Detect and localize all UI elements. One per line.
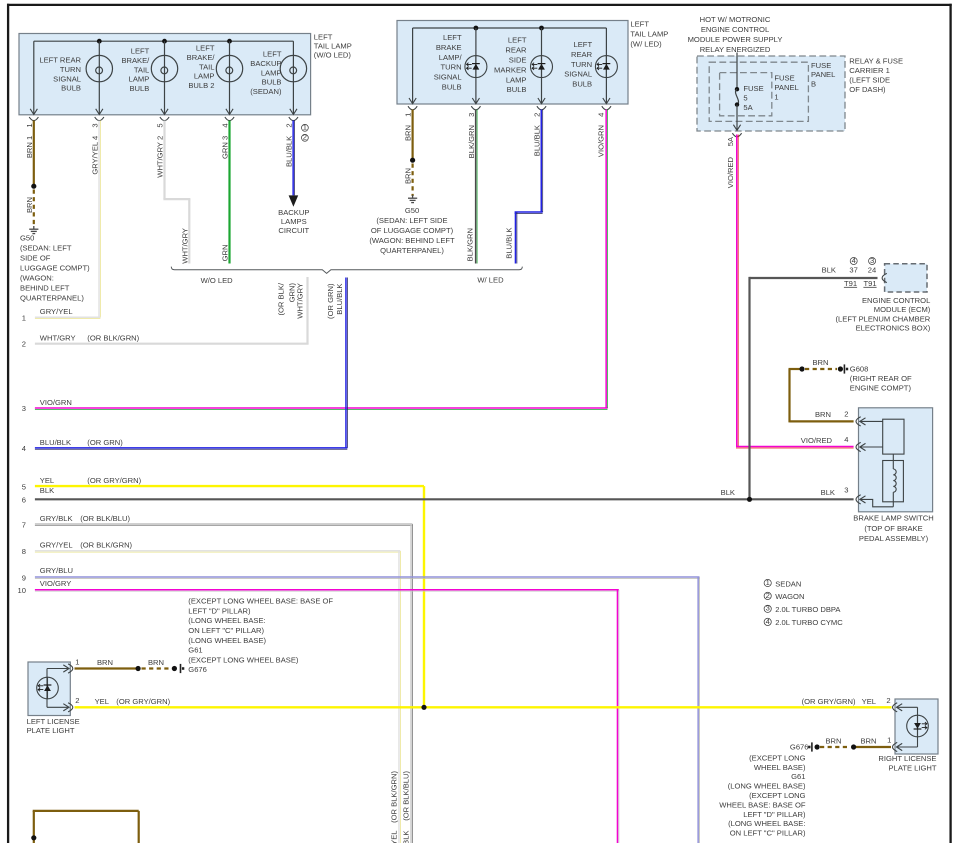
svg-text:BRN: BRN [812,358,828,367]
svg-text:LEFT: LEFT [630,19,649,28]
svg-text:BLU/BLK: BLU/BLK [505,228,514,259]
label GRN mid [221,245,230,262]
svg-text:W/ LED: W/ LED [477,275,504,284]
svg-text:LEFT: LEFT [443,33,462,42]
svg-text:VIO/GRY: VIO/GRY [40,579,72,588]
svg-text:B: B [811,80,816,89]
svg-text:4: 4 [844,435,848,444]
svg-text:WHT/GRY: WHT/GRY [180,228,189,264]
label RELAY & FUSE CARRIER 1 (LEFT SIDE OF DASH) [849,56,903,94]
svg-text:(W/O LED): (W/O LED) [314,50,352,59]
junction dot at G676 right [815,744,820,749]
svg-text:SEDAN: SEDAN [775,579,801,588]
svg-text:FUSE: FUSE [774,73,794,82]
dashed box RELAY AND FUSE CARRIER 1 [697,56,845,131]
svg-text:LUGGAGE COMPT): LUGGAGE COMPT) [20,264,90,273]
wire GRN box1 pin4 to brace [228,121,230,264]
wire BLU/BLK box2 pin2 jog to brace [515,110,543,264]
svg-text:G608: G608 [850,365,869,374]
label BLK line 6 [22,486,735,504]
svg-text:(OR BLK/GRN): (OR BLK/GRN) [389,771,398,823]
brake switch internal resistor coil [860,461,904,507]
svg-text:TURN: TURN [571,60,592,69]
svg-text:BLK: BLK [40,486,54,495]
label GRY/YEL line 1 [22,307,73,322]
svg-text:G676: G676 [188,665,207,674]
svg-text:BULB: BULB [61,84,81,93]
svg-text:LAMP/: LAMP/ [439,53,463,62]
svg-text:WHT/GRY: WHT/GRY [296,283,305,319]
label BRN above G608 wire [812,358,828,367]
svg-text:LEFT REAR: LEFT REAR [39,56,81,65]
labels BRN right license [825,736,876,745]
wire YEL line 5 to license plate lights [35,486,424,707]
wire GRY/BLU line 9 down to page bottom [35,577,700,843]
svg-text:BULB 2: BULB 2 [188,81,214,90]
svg-text:MODULE (ECM): MODULE (ECM) [874,305,931,314]
svg-text:10: 10 [18,586,26,595]
pin connectors box1 [29,117,298,121]
svg-text:QUARTERPANEL): QUARTERPANEL) [20,294,84,303]
junction dot BRN bottom left [31,835,36,840]
svg-text:BLU/BLK: BLU/BLK [533,125,542,156]
svg-text:TAIL: TAIL [134,65,149,74]
pin connectors box2 [408,106,611,110]
svg-text:SIGNAL: SIGNAL [564,70,592,79]
svg-text:ON LEFT "C" PILLAR): ON LEFT "C" PILLAR) [730,829,806,838]
svg-text:BLU/BLK: BLU/BLK [335,284,344,315]
svg-text:(W/ LED): (W/ LED) [630,39,662,48]
internal bus wire box1 [34,41,294,114]
svg-text:BRN: BRN [25,197,34,213]
svg-text:2: 2 [75,696,79,705]
pin labels box1 [25,123,294,177]
label GRY/YEL line 8 [22,541,133,557]
fuse output pin connector [732,133,741,137]
svg-text:2: 2 [766,591,770,600]
svg-text:GRY/BLK: GRY/BLK [40,514,73,523]
svg-text:(OR GRY/GRN): (OR GRY/GRN) [116,697,170,706]
svg-text:(OR BLK/GRN): (OR BLK/GRN) [87,333,139,342]
svg-text:YEL: YEL [40,476,54,485]
ground G676 right [808,742,812,751]
svg-text:PEDAL ASSEMBLY): PEDAL ASSEMBLY) [859,534,929,543]
svg-text:1: 1 [25,123,34,127]
svg-text:VIO/GRN: VIO/GRN [596,125,605,157]
svg-text:(LONG WHEEL BASE): (LONG WHEEL BASE) [188,636,266,645]
svg-text:1: 1 [303,123,307,132]
svg-text:(EXCEPT LONG: (EXCEPT LONG [749,791,805,800]
svg-text:(EXCEPT LONG: (EXCEPT LONG [749,753,805,762]
junction dot BRN right [851,744,856,749]
svg-text:BRN: BRN [815,410,831,419]
svg-text:2: 2 [284,123,293,127]
svg-text:GRY/YEL 4: GRY/YEL 4 [90,136,99,175]
label BLK/GRN mid [466,228,475,261]
ground G608 [844,364,912,392]
svg-text:(SEDAN: LEFT SIDE: (SEDAN: LEFT SIDE [376,216,447,225]
bulb LEFT REAR TURN SIGNAL BULB [39,41,112,114]
svg-text:ENGINE CONTROL: ENGINE CONTROL [862,296,930,305]
svg-text:3: 3 [22,404,26,413]
junction dot BLK line6 [747,497,752,502]
junction dot BRN left [136,666,141,671]
svg-text:(OR BLK/: (OR BLK/ [277,282,286,315]
label VIO/GRN line 3 [22,398,72,413]
svg-text:1: 1 [774,93,778,102]
svg-text:T91: T91 [863,279,876,288]
svg-text:BLK: BLK [822,266,836,275]
svg-text:(LEFT SIDE: (LEFT SIDE [849,76,890,85]
svg-text:BEHIND LEFT: BEHIND LEFT [20,284,70,293]
svg-text:SIDE OF: SIDE OF [20,254,51,263]
labels YEL left license [95,697,171,706]
svg-text:BRAKE: BRAKE [436,43,462,52]
dashed wire BRN to G608 [805,368,837,370]
svg-text:(OR GRN): (OR GRN) [326,283,335,319]
wire GRY/BLK line 7 down to page bottom [35,524,413,843]
labels BLK 3 at brake switch pin3 [821,488,835,497]
svg-text:TAIL LAMP: TAIL LAMP [630,29,668,38]
svg-text:2: 2 [533,113,542,117]
label BRN dashed box2 [404,168,413,184]
wire WHT/GRY box1 pin5 jog to brace [163,121,190,264]
svg-text:5: 5 [156,123,165,127]
wire BRN brake switch pin2 to G608 [789,369,854,422]
svg-text:WHEEL BASE): WHEEL BASE) [754,763,806,772]
svg-text:4: 4 [766,617,770,626]
svg-text:PANEL: PANEL [774,83,798,92]
label VIO/GRY line 10 [18,579,72,595]
junction dot YEL [421,705,426,710]
wire WHT/GRY below brace to line 2 [35,277,309,344]
svg-text:CARRIER 1: CARRIER 1 [849,66,890,75]
svg-text:MODULE POWER SUPPLY: MODULE POWER SUPPLY [688,35,783,44]
svg-text:G676: G676 [790,743,809,752]
labels BRN left license [97,658,164,667]
junction dot BRN G50 left [31,184,36,189]
svg-text:(OR GRY/GRN): (OR GRY/GRN) [802,697,856,706]
svg-text:G61: G61 [791,772,805,781]
svg-text:1: 1 [22,314,26,323]
label BLK at ECM [822,266,836,275]
label 5A [726,136,735,146]
svg-text:BRN: BRN [860,736,876,745]
text G50 sedan/wagon location left [20,233,90,302]
svg-text:LEFT "D" PILLAR): LEFT "D" PILLAR) [188,606,251,615]
svg-text:BULB: BULB [507,85,527,94]
svg-text:YEL: YEL [95,697,109,706]
svg-text:G50: G50 [20,233,34,242]
svg-text:WHEEL BASE: BASE OF: WHEEL BASE: BASE OF [719,800,806,809]
svg-text:BRN: BRN [404,125,413,141]
svg-text:(OR GRY/GRN): (OR GRY/GRN) [87,476,141,485]
dashed BRN to ground G676 left [142,667,173,669]
label LEFT TAIL LAMP (W/ LED) [630,19,668,48]
svg-text:3: 3 [467,113,476,117]
svg-text:3: 3 [844,486,848,495]
component box LEFT LICENSE PLATE LIGHT [27,662,80,735]
label BLU/BLK mid [505,228,514,259]
brake switch pin connectors 2 4 3 [844,410,860,504]
svg-text:(OR BLK/BLU): (OR BLK/BLU) [402,771,411,821]
svg-text:G50: G50 [405,206,419,215]
svg-text:LEFT: LEFT [574,40,593,49]
svg-text:(OR GRN): (OR GRN) [87,438,123,447]
component box RIGHT LICENSE PLATE LIGHT [878,699,938,773]
labels VIO/RED 4 at brake switch pin4 [801,436,833,445]
svg-text:LEFT: LEFT [263,50,282,59]
text G50 location box2 [369,206,455,255]
svg-text:TURN: TURN [60,65,81,74]
junction dot at G608 [838,366,843,371]
svg-text:5: 5 [22,482,26,491]
svg-text:(EXCEPT LONG WHEEL BASE): (EXCEPT LONG WHEEL BASE) [188,655,299,664]
junction dots on bus box1 [97,39,232,44]
svg-text:LEFT: LEFT [508,36,527,45]
svg-text:BLK: BLK [821,488,835,497]
svg-text:HOT W/ MOTRONIC: HOT W/ MOTRONIC [700,15,771,24]
svg-text:4: 4 [221,123,230,127]
label YEL line 5 [22,476,142,491]
labels below brace WHT/GRY OR BLK/GRN [277,282,305,319]
svg-text:2.0L TURBO CYMC: 2.0L TURBO CYMC [775,618,843,627]
svg-text:7: 7 [22,520,26,529]
svg-text:GRY/YEL: GRY/YEL [40,307,73,316]
svg-text:LAMP: LAMP [261,68,282,77]
svg-text:G61: G61 [188,646,202,655]
svg-text:1: 1 [404,113,413,117]
svg-text:LEFT: LEFT [196,44,215,53]
svg-text:1: 1 [766,578,770,587]
svg-text:SIGNAL: SIGNAL [434,73,462,82]
svg-text:WHT/GRY: WHT/GRY [40,333,76,342]
svg-text:(OR BLK/GRN): (OR BLK/GRN) [80,541,132,550]
svg-text:(SEDAN): (SEDAN) [250,87,282,96]
svg-text:(RIGHT REAR OF: (RIGHT REAR OF [850,374,912,383]
label WHT/GRY line 2 [22,333,140,348]
svg-text:CIRCUIT: CIRCUIT [278,226,309,235]
ECM pin labels 37 24 T91 [844,256,877,288]
hot-at text above fuse [688,15,783,54]
svg-text:PLATE LIGHT: PLATE LIGHT [27,726,75,735]
svg-text:TAIL LAMP: TAIL LAMP [314,41,352,50]
label BRN dashed left [25,197,34,213]
svg-text:5A: 5A [726,136,735,146]
svg-text:BRN: BRN [825,736,841,745]
arrow to backup lamps circuit [278,195,309,235]
svg-text:3: 3 [870,256,874,265]
svg-text:ON LEFT "C" PILLAR): ON LEFT "C" PILLAR) [188,626,264,635]
dashed wire BRN to ground G50 box2 [412,164,414,197]
svg-text:YEL: YEL [862,697,876,706]
svg-text:(LONG WHEEL BASE): (LONG WHEEL BASE) [728,782,806,791]
label GRY/BLK line 7 [22,514,131,529]
wire YEL left license light pin2 to right license light [75,706,892,708]
svg-text:RELAY ENERGIZED: RELAY ENERGIZED [700,45,771,54]
LED LEFT BRAKE LAMP/TURN SIGNAL BULB [434,28,487,104]
svg-text:REAR: REAR [505,46,527,55]
svg-text:BACKUP: BACKUP [278,208,309,217]
component box: LEFT TAIL LAMP (W/ LED) [397,21,628,105]
labels BRN 2 at brake switch pin2 [815,410,831,419]
svg-text:(SEDAN: LEFT: (SEDAN: LEFT [20,243,72,252]
svg-text:2: 2 [886,696,890,705]
wire BRN left license light pin1 [75,667,137,669]
wire BLK line 6 to brake lamp switch pin3 [35,498,854,500]
wire BLK/GRN box2 pin3 to brace [476,110,477,264]
svg-text:(LONG WHEEL BASE:: (LONG WHEEL BASE: [188,616,265,625]
svg-text:6: 6 [22,496,26,505]
svg-text:LEFT: LEFT [314,33,333,42]
svg-text:GRN: GRN [221,245,230,262]
svg-text:OF DASH): OF DASH) [849,85,886,94]
svg-text:2.0L TURBO DBPA: 2.0L TURBO DBPA [775,605,841,614]
pin connectors left license light [68,657,79,712]
bulb LEFT BRAKE/TAIL LAMP BULB 2 [187,41,243,114]
wire GRY/YEL box1 pin3 to edge line 1 [35,121,101,319]
svg-text:1: 1 [887,736,891,745]
wire BLU/BLK below brace to line 4 [35,278,347,450]
internal feed wire arrow pin1 [30,109,37,115]
bundle brace W/O LED + W/ LED [171,267,522,285]
svg-text:3: 3 [766,604,770,613]
wire BLU/BLK box1 pin2 backup lamps [293,121,294,196]
svg-text:BLU/BLK: BLU/BLK [284,136,293,167]
junction dot BRN G50 box2 [410,158,415,163]
dashed BRN to ground G676 right [820,746,850,748]
svg-text:3: 3 [90,123,99,127]
pin labels box2 [404,113,606,159]
LED LEFT REAR TURN SIGNAL BULB [564,28,617,104]
wire VIO/GRY line 10 down to page bottom [35,590,619,843]
svg-text:BLU/BLK: BLU/BLK [40,438,71,447]
svg-text:W/O LED: W/O LED [201,276,234,285]
labels below brace BLU/BLK OR GRN [326,283,344,319]
svg-text:(WAGON:: (WAGON: [20,274,54,283]
svg-text:GRY/BLU: GRY/BLU [40,566,73,575]
svg-text:VIO/RED: VIO/RED [726,156,735,188]
svg-text:PANEL: PANEL [811,70,835,79]
svg-text:BRAKE LAMP SWITCH: BRAKE LAMP SWITCH [853,514,933,523]
svg-text:ENGINE CONTROL: ENGINE CONTROL [701,25,769,34]
internal feed wire arrow box2 pin1 [409,98,416,104]
svg-text:VIO/GRN: VIO/GRN [40,398,72,407]
svg-text:TAIL: TAIL [199,62,214,71]
wire BRN bottom left loop [33,811,139,843]
ground G676 left [181,664,185,673]
variant markers circled 1 2 at backup lamp pin [302,123,309,142]
dashed box FUSE PANEL 1 [720,73,799,116]
svg-text:2: 2 [844,410,848,419]
wire BRN box1 pin1 to G50 [33,121,35,185]
svg-text:(OR BLK/BLU): (OR BLK/BLU) [80,514,130,523]
svg-text:ELECTRONICS BOX): ELECTRONICS BOX) [856,324,931,333]
svg-text:GRN 3: GRN 3 [221,136,230,159]
label WHT/GRY mid [180,228,189,264]
svg-text:5A: 5A [743,103,753,112]
internal bus wire box2 [413,28,607,103]
wire GRY/YEL line 8 down to page bottom [35,551,400,843]
svg-text:LEFT: LEFT [131,47,150,56]
svg-text:37: 37 [849,266,857,275]
ECM pin connector arc [882,273,887,282]
svg-text:RELAY & FUSE: RELAY & FUSE [849,56,903,65]
svg-text:LAMPS: LAMPS [281,217,307,226]
labels on bottom verticals lines 7 8 [389,771,410,843]
svg-text:BRN 1: BRN 1 [25,136,34,158]
svg-text:SIGNAL: SIGNAL [53,74,81,83]
svg-text:OF LUGGAGE COMPT): OF LUGGAGE COMPT) [371,226,454,235]
svg-text:GRY/YEL: GRY/YEL [40,541,73,550]
svg-text:BLK/GRN: BLK/GRN [466,228,475,261]
svg-text:LEFT "D" PILLAR): LEFT "D" PILLAR) [743,810,806,819]
labels YEL right license [802,697,876,706]
svg-text:FUSE: FUSE [811,61,831,70]
svg-text:(EXCEPT LONG WHEEL BASE: BASE: (EXCEPT LONG WHEEL BASE: BASE OF [188,597,333,606]
svg-text:ENGINE COMPT): ENGINE COMPT) [850,383,912,392]
svg-text:VIO/RED: VIO/RED [801,436,833,445]
junction dots on bus box2 [474,26,544,31]
legend variant markers [764,578,843,627]
LED LEFT REAR SIDE MARKER LAMP BULB [494,28,553,104]
svg-text:LAMP: LAMP [194,72,215,81]
label GRY/BLU line 9 [22,566,73,582]
ground G50 left [29,226,38,234]
svg-text:(LONG WHEEL BASE:: (LONG WHEEL BASE: [728,819,805,828]
svg-text:BULB: BULB [129,84,149,93]
svg-text:RIGHT LICENSE: RIGHT LICENSE [878,754,936,763]
pin connectors right license light [886,696,897,751]
svg-text:T91: T91 [844,279,857,288]
svg-text:2: 2 [22,340,26,349]
svg-text:4: 4 [22,444,26,453]
svg-text:BLK/GRN: BLK/GRN [467,125,476,158]
svg-text:BLK: BLK [721,488,735,497]
svg-text:SIDE: SIDE [509,56,527,65]
fuse F5 5A symbol [733,53,763,131]
svg-text:1: 1 [75,657,79,666]
ground G50 box2 [408,195,417,203]
svg-text:(LEFT PLENUM CHAMBER: (LEFT PLENUM CHAMBER [836,314,931,323]
svg-text:4: 4 [596,113,605,117]
svg-text:LAMP: LAMP [129,75,150,84]
svg-text:QUARTERPANEL): QUARTERPANEL) [380,246,444,255]
svg-text:(TOP OF BRAKE: (TOP OF BRAKE [864,524,922,533]
svg-text:REAR: REAR [571,50,593,59]
svg-text:BRN: BRN [148,658,164,667]
dashed box FUSE PANEL B [709,61,835,122]
svg-text:BRN: BRN [97,658,113,667]
dashed wire BRN to ground G50 left [33,190,35,228]
svg-text:2: 2 [303,133,307,142]
wire VIO/GRN box2 pin4 to edge line 3 [35,110,608,410]
svg-text:BULB: BULB [442,83,462,92]
bulb LEFT BACKUP LAMP BULB (SEDAN) [250,41,306,114]
svg-text:BACKUP: BACKUP [250,59,281,68]
svg-text:LEFT LICENSE: LEFT LICENSE [27,717,80,726]
svg-text:8: 8 [22,547,26,556]
svg-text:BULB: BULB [262,78,282,87]
label VIO/RED vertical [726,156,735,188]
svg-text:TURN: TURN [441,63,462,72]
wire BRN box2 pin1 to G50 [412,110,414,159]
svg-text:FUSE: FUSE [743,84,763,93]
junction dot BRN G608 [799,366,804,371]
svg-text:GRY/YEL: GRY/YEL [389,831,398,843]
text block G61 G676 left [188,597,333,675]
svg-text:WAGON: WAGON [775,592,804,601]
